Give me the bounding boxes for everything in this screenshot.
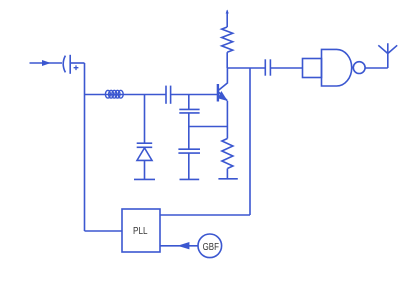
wire R2 to ground (226, 169, 228, 179)
capacitor C1 straight plate (69, 55, 71, 74)
capacitor C5 plate left (264, 59, 266, 75)
wire C5 to gate (270, 67, 302, 69)
supply stub top (226, 11, 228, 28)
wire rail to PLL (85, 230, 123, 232)
varactor D1 triangle (137, 148, 152, 161)
wire input (30, 62, 63, 64)
wire C4 to ground (188, 153, 190, 179)
transistor Q1 emitter arrow (218, 91, 228, 101)
wire through inductor (105, 94, 124, 96)
ground bar C4 (180, 178, 200, 180)
gate U1 body (322, 49, 352, 86)
wire inductor to C2 (124, 94, 166, 96)
wire GBF to PLL (160, 245, 198, 247)
GBF circle (198, 234, 222, 258)
wire feedback to PLL (160, 214, 250, 216)
gate U1 input rectangle (303, 59, 322, 78)
svg-text:PLL: PLL (133, 226, 148, 237)
capacitor C3 plate top (179, 108, 199, 110)
antenna (378, 43, 397, 68)
gate U1 bubble (353, 62, 365, 74)
capacitor C2 plate right (170, 86, 172, 104)
resistor R2 emitter (222, 139, 233, 169)
supply arrow tip (226, 10, 229, 14)
transistor Q1 emitter diagonal (219, 92, 228, 101)
wire varactor branch (144, 95, 146, 144)
transistor Q1 collector diagonal (219, 83, 228, 90)
wire emitter down (226, 101, 228, 139)
varactor D1 cathode bar (137, 146, 153, 148)
capacitor C1 curved plate (63, 56, 65, 73)
resistor R1 collector (222, 27, 233, 52)
capacitor C4 plate top (178, 148, 200, 150)
capacitor C2 plate left (165, 86, 167, 104)
GBF arrow (178, 242, 190, 249)
PLL box (122, 209, 160, 252)
plus sign (74, 65, 79, 70)
wire cap to rail (70, 62, 84, 64)
wire C2 to base (171, 94, 217, 96)
wire cap branch top (188, 95, 190, 110)
wire left rail (84, 63, 86, 231)
ground bar varactor (134, 178, 155, 180)
wire C3 to junction (188, 113, 190, 149)
capacitor C5 plate right (269, 59, 271, 75)
ground bar emitter (218, 178, 237, 180)
capacitor C3 plate bottom (179, 112, 199, 114)
varactor D1 top bar (137, 142, 153, 144)
capacitor C4 plate bottom (178, 152, 200, 154)
wire rail to inductor (85, 94, 106, 96)
svg-text:GBF: GBF (203, 242, 219, 253)
wire collector node to C5 (227, 67, 265, 69)
wire feedback vertical (249, 68, 251, 215)
wire R1 to collector node (226, 52, 228, 68)
inductor L1 (105, 90, 123, 98)
input arrow (42, 60, 51, 66)
wire junction to emitter (189, 126, 228, 128)
wire varactor to ground (144, 160, 146, 179)
wire gate to antenna (365, 67, 388, 69)
transistor Q1 base bar (217, 84, 219, 102)
wire collector up (226, 68, 228, 84)
